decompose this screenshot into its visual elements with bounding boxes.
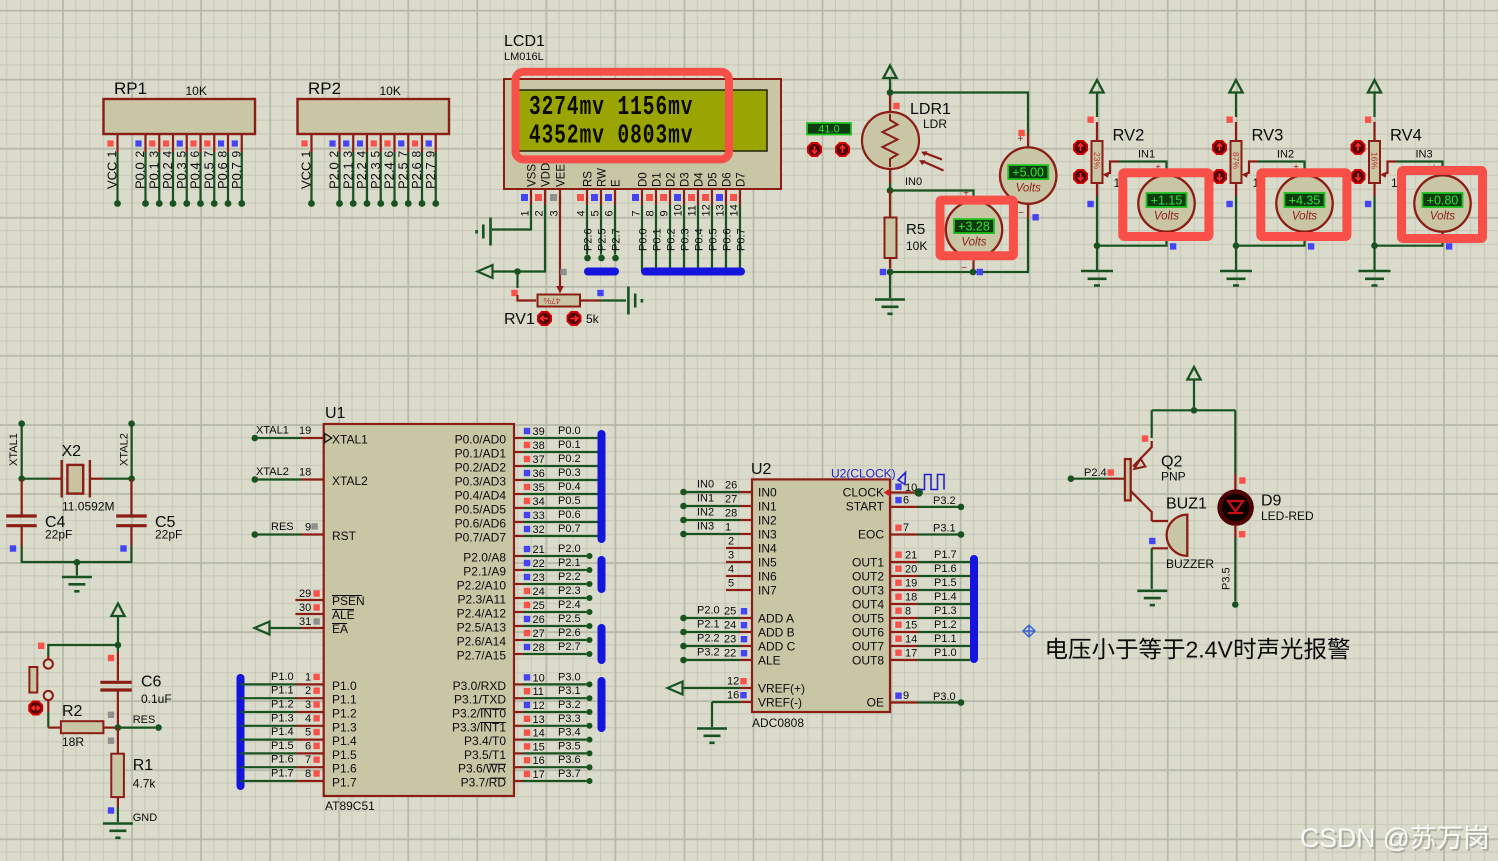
svg-text:RST: RST	[332, 529, 357, 543]
svg-text:3: 3	[305, 699, 311, 711]
U2 pin OUT1 (21)	[890, 561, 918, 563]
svg-text:11: 11	[533, 686, 544, 698]
svg-text:6: 6	[604, 210, 616, 216]
wire BUZ1 to ground	[1151, 548, 1153, 589]
svg-text:RW: RW	[597, 168, 609, 187]
svg-text:−: −	[961, 263, 967, 274]
svg-text:9: 9	[903, 690, 909, 702]
svg-text:37: 37	[533, 454, 545, 466]
LDR increase button	[836, 143, 849, 156]
ground (RV2)	[1081, 270, 1113, 273]
svg-text:10: 10	[673, 204, 685, 216]
svg-text:P2.1: P2.1	[340, 162, 355, 189]
node crystal right junction	[128, 475, 135, 482]
svg-text:P1.6: P1.6	[934, 563, 957, 575]
U2 pin IN5 (3)	[726, 561, 752, 563]
U1 pin P3.4 (14)	[514, 738, 523, 740]
RV2 wiper to IN1 wire	[1110, 162, 1119, 175]
svg-text:Volts: Volts	[961, 237, 986, 249]
U1 pin P1.6 (7)	[241, 766, 297, 768]
wire rail to D9	[1234, 410, 1236, 474]
svg-text:87%: 87%	[1231, 152, 1241, 169]
potentiometer RV2 23%	[1096, 122, 1098, 141]
svg-text:RP1: RP1	[114, 79, 147, 98]
U2 pin OUT2 (20)	[890, 575, 918, 577]
svg-text:P1.5: P1.5	[934, 577, 957, 589]
svg-text:P1.5: P1.5	[332, 748, 357, 762]
U1 pin P1.7 (8)	[241, 780, 297, 782]
svg-text:IN5: IN5	[758, 556, 777, 570]
svg-text:P1.2: P1.2	[332, 707, 357, 721]
svg-text:7: 7	[903, 522, 909, 534]
RV3 wiper to IN2 wire	[1249, 162, 1258, 175]
svg-text:ADD A: ADD A	[758, 612, 794, 626]
svg-text:32: 32	[533, 524, 545, 536]
svg-text:OUT4: OUT4	[852, 598, 884, 612]
node alarm rail junction	[1191, 407, 1198, 414]
svg-text:P0.3: P0.3	[174, 162, 189, 189]
svg-text:11: 11	[687, 205, 699, 216]
svg-text:P1.2: P1.2	[934, 619, 957, 631]
svg-text:P3.5: P3.5	[1221, 567, 1233, 590]
svg-text:5k: 5k	[586, 312, 600, 326]
svg-text:27: 27	[725, 494, 737, 506]
node clock junction	[915, 488, 923, 496]
svg-text:9: 9	[229, 151, 243, 158]
svg-text:XTAL2: XTAL2	[119, 433, 131, 466]
bus OUT (right of U2)	[970, 559, 978, 659]
svg-text:17: 17	[905, 648, 917, 660]
svg-text:P3.1: P3.1	[933, 523, 956, 535]
svg-text:P2.1: P2.1	[558, 557, 581, 569]
svg-text:P2.1/A9: P2.1/A9	[463, 565, 506, 579]
svg-text:36: 36	[533, 468, 545, 480]
svg-text:IN1: IN1	[1138, 149, 1155, 161]
wire R1 to ground	[117, 807, 119, 822]
U1 pin P2.4 (25)	[514, 611, 523, 613]
svg-text:XTAL1: XTAL1	[256, 425, 289, 437]
svg-text:21: 21	[533, 544, 545, 556]
svg-text:8: 8	[645, 210, 657, 216]
wire button to R2	[47, 700, 49, 712]
svg-text:4: 4	[355, 151, 369, 158]
watermark CSDN	[1302, 825, 1489, 855]
svg-text:P0.6: P0.6	[722, 228, 734, 251]
op-amp U2 ADC0808 body	[752, 479, 890, 712]
svg-text:RS: RS	[583, 171, 595, 187]
svg-text:+5.00: +5.00	[1012, 166, 1044, 180]
svg-text:P1.0: P1.0	[934, 647, 957, 659]
svg-text:P0.6: P0.6	[558, 509, 581, 521]
svg-text:IN0: IN0	[697, 479, 714, 491]
capacitor C4 22pF	[21, 479, 23, 515]
RP1 pin 9 (P0.7)	[241, 134, 243, 152]
U1 pin P0.5 (34)	[514, 507, 523, 509]
LCD1 pin 13 (D6)	[725, 189, 727, 205]
svg-text:4: 4	[305, 713, 311, 725]
RP2 pin 6 (P2.4)	[393, 134, 395, 152]
svg-text:P1.7: P1.7	[271, 768, 294, 780]
svg-text:P0.4: P0.4	[188, 162, 203, 189]
svg-text:28: 28	[533, 642, 545, 654]
svg-text:IN1: IN1	[758, 500, 777, 514]
svg-text:7: 7	[202, 151, 216, 158]
svg-text:P3.1: P3.1	[558, 685, 581, 697]
svg-text:P2.7/A15: P2.7/A15	[457, 649, 507, 663]
svg-text:IN1: IN1	[697, 493, 714, 505]
bus P3 (right of U1)	[598, 681, 606, 728]
op-amp U1 AT89C51 body	[324, 424, 514, 796]
svg-text:PSEN: PSEN	[332, 594, 365, 608]
svg-text:P1.1: P1.1	[332, 693, 357, 707]
U1 pin P3.7 (17)	[514, 780, 523, 782]
svg-text:XTAL1: XTAL1	[332, 433, 368, 447]
svg-text:4: 4	[161, 151, 175, 158]
svg-text:10K: 10K	[380, 84, 401, 98]
svg-text:P0.2: P0.2	[558, 453, 581, 465]
svg-text:−: −	[1018, 208, 1024, 219]
svg-text:P0.3/AD3: P0.3/AD3	[455, 475, 507, 489]
U2 pin OUT7 (14)	[890, 645, 918, 647]
RP2 pin 2 (P2.0)	[338, 134, 340, 152]
svg-text:P0.2/AD2: P0.2/AD2	[455, 461, 507, 475]
LCD1 pin 9 (D2)	[669, 189, 671, 205]
voltmeter +0.80 Volts	[1441, 168, 1443, 175]
svg-text:P1.5: P1.5	[271, 740, 294, 752]
svg-text:P0.7: P0.7	[229, 162, 244, 189]
svg-text:16: 16	[727, 690, 739, 702]
svg-text:RV2: RV2	[1113, 127, 1145, 145]
LCD1 pin 6 (E)	[614, 189, 616, 205]
RP1 pin 8 (P0.6)	[227, 134, 229, 152]
U2 pin IN0 (26)	[680, 489, 687, 496]
power arrow (LDR1 top)	[883, 66, 896, 79]
wire VDD junction down to RV1 pin 1	[516, 272, 518, 289]
U2 pin ADD/ALE (22)	[680, 657, 687, 664]
svg-text:D2: D2	[666, 172, 678, 187]
svg-text:3: 3	[728, 550, 734, 562]
wire E to node P2.7	[614, 205, 616, 255]
svg-text:2: 2	[728, 536, 734, 548]
svg-text:P1.1: P1.1	[271, 685, 294, 697]
RP2 pin 9 (P2.7)	[435, 134, 437, 152]
svg-text:26: 26	[725, 480, 737, 492]
svg-text:23: 23	[724, 634, 736, 646]
svg-text:P0.6/AD6: P0.6/AD6	[455, 517, 507, 531]
svg-text:D4: D4	[694, 172, 706, 187]
svg-text:IN3: IN3	[1416, 149, 1433, 161]
RV4 wiper to IN3 wire	[1388, 162, 1397, 175]
svg-text:4: 4	[728, 564, 734, 576]
svg-text:P0.0: P0.0	[133, 162, 148, 189]
svg-text:24: 24	[724, 620, 736, 632]
wire caps to ground	[22, 546, 132, 562]
svg-text:P2.0: P2.0	[697, 605, 720, 617]
U1 pin P3.2 (12)	[514, 711, 523, 713]
svg-text:R1: R1	[133, 757, 154, 774]
svg-text:P0.2: P0.2	[666, 228, 678, 251]
RP1 pin 5 (P0.3)	[186, 134, 188, 152]
wire bottom rail to voltmeters	[890, 218, 1028, 272]
push button actuate control	[29, 702, 42, 715]
svg-text:IN3: IN3	[697, 521, 714, 533]
ground (VSS, rotated left)	[489, 218, 492, 246]
wire alarm rail	[1152, 409, 1236, 411]
svg-text:P1.3: P1.3	[271, 712, 294, 724]
U2 pin OUT6 (15)	[890, 631, 918, 633]
svg-text:47%: 47%	[543, 296, 560, 306]
svg-text:P0.0/AD0: P0.0/AD0	[455, 433, 507, 447]
svg-text:1: 1	[520, 210, 532, 216]
svg-text:6: 6	[903, 495, 909, 507]
LDR brightness display 41.0	[807, 123, 851, 135]
svg-text:39: 39	[533, 426, 545, 438]
svg-text:P3.0: P3.0	[933, 691, 956, 703]
U1 pin EA (31)	[270, 627, 301, 629]
svg-text:22pF: 22pF	[155, 528, 182, 542]
power arrow (alarm top)	[1187, 367, 1200, 380]
svg-text:P3.0/RXD: P3.0/RXD	[453, 679, 507, 693]
ground (VREF-)	[697, 727, 727, 730]
svg-text:4352mv 0803mv: 4352mv 0803mv	[529, 121, 693, 152]
bus P2 segment a	[598, 560, 606, 589]
svg-text:IN3: IN3	[758, 528, 777, 542]
LCD1 pin 14 (D7)	[739, 189, 741, 205]
svg-text:7: 7	[396, 151, 410, 158]
U2 pin CLOCK (10)	[884, 488, 891, 497]
svg-text:P1.1: P1.1	[934, 633, 957, 645]
svg-text:VREF(+): VREF(+)	[758, 682, 805, 696]
U1 pin XTAL2 (18)	[252, 476, 259, 483]
svg-text:18: 18	[905, 592, 917, 604]
crystal X2	[22, 478, 49, 480]
svg-text:25: 25	[533, 600, 545, 612]
svg-text:IN4: IN4	[758, 542, 777, 556]
svg-text:2: 2	[305, 685, 311, 697]
svg-text:P2.3: P2.3	[368, 162, 383, 189]
svg-text:P2.2: P2.2	[354, 162, 369, 189]
svg-text:12: 12	[701, 204, 713, 216]
RV1 increase button	[568, 312, 581, 325]
wire RV1 to ground	[580, 299, 600, 301]
power arrow (VREF+, left)	[668, 682, 683, 695]
U1 pin P3.6 (16)	[514, 766, 523, 768]
svg-text:P0.3: P0.3	[558, 467, 581, 479]
capacitor C6 0.1uF	[117, 645, 119, 652]
U1 pin P1.0 (1)	[241, 683, 297, 685]
RV3 increase button	[1213, 141, 1226, 154]
clock generator U2(CLOCK)	[898, 473, 906, 485]
ground (RV4)	[1359, 270, 1391, 273]
svg-text:P3.5/T1: P3.5/T1	[464, 748, 506, 762]
svg-text:P3.3: P3.3	[558, 713, 581, 725]
svg-text:P2.7: P2.7	[423, 162, 438, 189]
svg-text:OE: OE	[867, 696, 884, 710]
wire VSS to ground	[492, 205, 531, 230]
svg-text:P1.6: P1.6	[332, 762, 357, 776]
svg-text:D6: D6	[722, 172, 734, 187]
svg-text:P2.2/A10: P2.2/A10	[457, 579, 507, 593]
node IN0	[887, 187, 894, 194]
U1 pin RST (9)	[252, 531, 259, 538]
wire R5 to ground	[889, 272, 891, 298]
svg-text:P0.7: P0.7	[558, 523, 581, 535]
svg-text:LCD1: LCD1	[504, 33, 545, 50]
svg-text:P2.0: P2.0	[558, 543, 581, 555]
svg-text:ADD B: ADD B	[758, 626, 795, 640]
svg-text:P1.3: P1.3	[934, 605, 957, 617]
U2 pin VREF(-) (16)	[740, 701, 752, 703]
svg-text:P3.6: P3.6	[558, 754, 581, 766]
svg-text:22pF: 22pF	[45, 528, 72, 542]
svg-text:P2.5/A13: P2.5/A13	[457, 621, 507, 635]
svg-text:P2.3: P2.3	[558, 585, 581, 597]
svg-text:IN0: IN0	[905, 176, 922, 188]
svg-text:41.0: 41.0	[818, 124, 839, 136]
U1 pin P2.6 (27)	[514, 639, 523, 641]
svg-text:VCC: VCC	[105, 162, 120, 189]
svg-text:P2.3/A11: P2.3/A11	[458, 593, 507, 607]
svg-text:U2(CLOCK): U2(CLOCK)	[831, 467, 896, 481]
svg-text:P2.6: P2.6	[558, 627, 581, 639]
svg-text:3274mv 1156mv: 3274mv 1156mv	[529, 92, 693, 123]
RP2 pin 4 (P2.2)	[366, 134, 368, 152]
LED D9 LED-RED	[1234, 474, 1236, 491]
svg-text:14: 14	[905, 634, 917, 646]
svg-text:6: 6	[305, 740, 311, 752]
svg-text:P0.5: P0.5	[558, 495, 581, 507]
svg-text:RES: RES	[271, 521, 294, 533]
svg-text:XTAL2: XTAL2	[256, 466, 289, 478]
bus segment (P0.0-P0.7)	[645, 268, 741, 276]
svg-text:13: 13	[715, 204, 727, 216]
svg-text:28: 28	[725, 508, 737, 520]
U1 pin XTAL1 (19)	[252, 435, 259, 442]
RV2 decrease button	[1074, 170, 1087, 183]
svg-text:D9: D9	[1261, 493, 1282, 510]
potentiometer RV3 87%	[1235, 122, 1237, 141]
wire rail to Q2 emitter	[1151, 410, 1153, 438]
U1 pin P0.2 (37)	[514, 465, 523, 467]
RP2 pin 1 (VCC)	[310, 134, 312, 152]
ground (BUZ1)	[1137, 589, 1167, 592]
svg-text:+4.35: +4.35	[1289, 194, 1321, 208]
U1 pin P1.5 (6)	[241, 752, 297, 754]
node XTAL2 terminal	[128, 420, 135, 427]
svg-text:XTAL2: XTAL2	[332, 474, 368, 488]
svg-text:16%: 16%	[1370, 152, 1380, 169]
svg-text:P3.2: P3.2	[558, 699, 581, 711]
U2 pin OE (9) to P3.0	[890, 701, 918, 703]
node ground junction	[74, 559, 81, 566]
LCD1 pin 7 (D0)	[641, 189, 643, 205]
power arrow (left, VDD net)	[478, 265, 493, 278]
svg-text:IN7: IN7	[758, 584, 777, 598]
RV1 decrease button	[538, 312, 551, 325]
LCD1 pin 11 (D4)	[697, 189, 699, 205]
svg-text:9: 9	[659, 210, 671, 216]
wire RV3 to ground	[1235, 246, 1237, 270]
voltmeter +4.35 Volts	[1303, 168, 1305, 175]
svg-text:5: 5	[368, 151, 382, 158]
U2 pin ADD/ALE (24)	[680, 629, 687, 636]
U1 pin P3.1 (11)	[514, 697, 523, 699]
svg-text:P0.0: P0.0	[638, 228, 650, 251]
svg-text:P0.3: P0.3	[680, 228, 692, 251]
wire VEE to RV1 wiper	[559, 196, 561, 287]
U2 pin VREF(+) (12)	[683, 687, 740, 689]
svg-text:P3.2: P3.2	[697, 647, 720, 659]
svg-text:P0.1/AD1: P0.1/AD1	[455, 447, 507, 461]
svg-text:18R: 18R	[62, 735, 84, 749]
svg-text:P0.1: P0.1	[146, 162, 161, 189]
LCD1 pin 12 (D5)	[711, 189, 713, 205]
wire XTAL2 up	[131, 424, 133, 479]
svg-text:ALE: ALE	[758, 654, 781, 668]
RP2 pin 7 (P2.5)	[407, 134, 409, 152]
svg-text:P2.7: P2.7	[611, 228, 623, 251]
wire RV4 bottom rail	[1373, 183, 1375, 196]
LCD1 pin 10 (D3)	[683, 189, 685, 205]
svg-text:BUZ1: BUZ1	[1166, 496, 1207, 513]
svg-text:3: 3	[549, 210, 561, 216]
svg-text:D1: D1	[652, 172, 664, 187]
LCD1 pin 8 (D1)	[655, 189, 657, 205]
svg-text:P0.0: P0.0	[558, 425, 581, 437]
svg-text:IN2: IN2	[697, 507, 714, 519]
node voltmeter bottom junction	[970, 269, 977, 276]
svg-text:6: 6	[188, 151, 202, 158]
svg-text:C6: C6	[141, 674, 162, 691]
ground (GND)	[103, 822, 133, 825]
U2 pin OUT3 (19)	[890, 589, 918, 591]
svg-text:6: 6	[382, 151, 396, 158]
wire RV2 bottom rail	[1096, 183, 1098, 196]
annotation highlight (voltmeter +4.35)	[1261, 173, 1347, 237]
svg-text:1: 1	[105, 151, 119, 158]
U2 pin EOC (7) to P3.1	[890, 533, 918, 535]
svg-text:10K: 10K	[906, 239, 927, 253]
svg-text:CSDN @: CSDN @	[1300, 823, 1410, 853]
svg-text:D3: D3	[680, 172, 692, 187]
svg-text:OUT5: OUT5	[852, 612, 884, 626]
svg-text:P1.0: P1.0	[271, 671, 294, 683]
svg-text:P1.2: P1.2	[271, 699, 294, 711]
svg-text:5: 5	[174, 151, 188, 158]
svg-text:P0.7/AD7: P0.7/AD7	[455, 531, 507, 545]
svg-text:LDR: LDR	[923, 117, 947, 131]
U1 pin P0.6 (33)	[514, 521, 523, 523]
svg-text:LED-RED: LED-RED	[1261, 509, 1314, 523]
svg-text:10: 10	[533, 672, 545, 684]
push button	[47, 656, 49, 660]
wire RW to node P2.5	[600, 205, 602, 255]
svg-text:OUT2: OUT2	[852, 570, 884, 584]
svg-text:+0.80: +0.80	[1427, 194, 1459, 208]
svg-text:5: 5	[305, 727, 311, 739]
svg-text:19: 19	[299, 425, 311, 437]
svg-text:OUT8: OUT8	[852, 654, 884, 668]
svg-text:LM016L: LM016L	[504, 51, 544, 63]
svg-text:AT89C51: AT89C51	[325, 799, 375, 813]
svg-text:OUT3: OUT3	[852, 584, 884, 598]
svg-text:P0.1: P0.1	[652, 228, 664, 251]
U1 pin P2.1 (22)	[514, 569, 523, 571]
bus P1 (left of U1)	[237, 678, 245, 786]
svg-text:P1.4: P1.4	[271, 726, 294, 738]
svg-text:ALE: ALE	[332, 608, 355, 622]
svg-text:U1: U1	[325, 405, 346, 422]
